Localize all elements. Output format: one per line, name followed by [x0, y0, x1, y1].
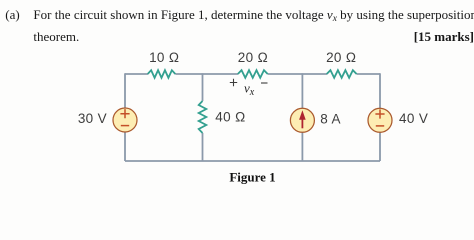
svg-text:40 V: 40 V [399, 111, 428, 126]
wire top rail segment left [125, 73, 148, 75]
wire top rail segment between 10ohm and 20ohm [175, 73, 238, 75]
resistor R4 40ohm vertical [199, 101, 207, 133]
voltage source V2 40V circle [368, 108, 392, 132]
circuit schematic [0, 0, 474, 187]
wire bottom rail [125, 160, 380, 162]
wire 40ohm branch upper [202, 73, 204, 101]
wire right rail upper [379, 73, 381, 108]
svg-text:vx: vx [244, 81, 255, 99]
marks label [414, 30, 474, 43]
svg-text:40 Ω: 40 Ω [215, 110, 245, 125]
svg-text:20 Ω: 20 Ω [238, 50, 268, 65]
current source I1 8A circle [290, 108, 314, 132]
wire 8A branch lower [301, 132, 303, 161]
svg-text:30 V: 30 V [78, 111, 107, 126]
V1 plus sign [120, 109, 129, 118]
wire top rail segment right [357, 73, 380, 75]
svg-text:20 Ω: 20 Ω [326, 50, 356, 65]
V1 minus sign [121, 125, 129, 127]
resistor R1 10ohm [148, 70, 176, 78]
svg-text:8 A: 8 A [320, 112, 341, 127]
problem text line 2 [33, 30, 79, 43]
resistor R2 20ohm middle [238, 70, 268, 78]
I1 arrow [301, 119, 303, 129]
wire 40ohm branch lower [202, 133, 204, 161]
voltage source V1 30V circle [113, 108, 137, 132]
wire right rail lower [379, 132, 381, 161]
problem text line 1 [33, 8, 473, 21]
V2 plus sign [375, 109, 384, 118]
problem text line 1: (a) [5, 8, 19, 21]
svg-text:Figure 1: Figure 1 [229, 169, 275, 184]
wire left rail lower [124, 132, 126, 161]
wire top rail segment between 20ohm and 20ohm [268, 73, 327, 75]
vx minus mark [261, 82, 268, 84]
svg-text:10 Ω: 10 Ω [149, 50, 179, 65]
V2 minus sign [376, 125, 384, 127]
wire left rail upper [124, 73, 126, 108]
wire 8A branch upper [301, 73, 303, 108]
resistor R3 20ohm right [327, 70, 357, 78]
vx plus mark [230, 79, 237, 86]
